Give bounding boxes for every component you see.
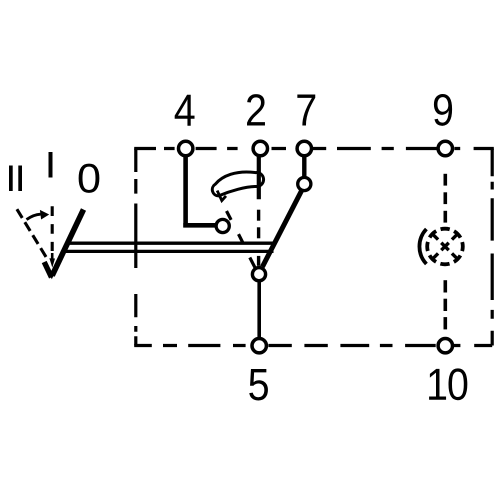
wire: dashed lamp to terminal 10 [443,280,447,329]
switch housing box (dash-dot border) [134,149,492,346]
wire: stub from terminal 2 into band [257,154,261,199]
wire: branch from terminal 4 to contact [183,155,216,228]
lever position I dashed line [51,206,54,251]
lever position II dashed line [17,209,48,260]
contact circle of branch 7 [298,177,311,190]
node 5 junction circle [252,268,265,281]
label 0 (lever position) [79,164,100,193]
contact circle of branch 4 [216,219,229,232]
lever (position 0, solid) with arrowhead [44,210,83,280]
label 9 [434,94,452,126]
label II (lever position) [9,166,22,192]
wire: dashed path terminal 2 to node 5 (momentary position) [257,210,260,266]
wire: node 5 junction to terminal 5 [257,281,261,340]
terminal 2 [253,141,267,155]
lamp reflector arc [419,229,426,264]
actuator rod (double line) [64,243,277,251]
label 7 [297,95,315,126]
arrowhead of curved band [217,191,226,201]
wire: dashed terminal 9 to lamp [443,174,447,223]
label 4 [175,95,195,126]
label 2 [247,94,265,125]
terminal 5 [252,339,266,353]
arrow arc II to I [27,210,50,220]
spring-return curved band (momentary indicator) [212,172,263,196]
label I (lever position) [49,152,53,178]
terminal 7 [297,141,311,155]
terminal 10 [438,339,452,353]
wire: dashed path contact 4 to node 5 (momentary position II) [227,211,256,268]
label 5 [249,369,268,400]
wire: stub from terminal 7 [302,156,306,178]
wire: moving contact 7 to node 5 (closed path, diagonal) [262,191,301,267]
label 10 [429,368,467,400]
terminal 9 [438,141,452,155]
lamp L1 (illumination, dashed circle with X) [427,229,463,265]
terminal 4 [179,141,193,155]
